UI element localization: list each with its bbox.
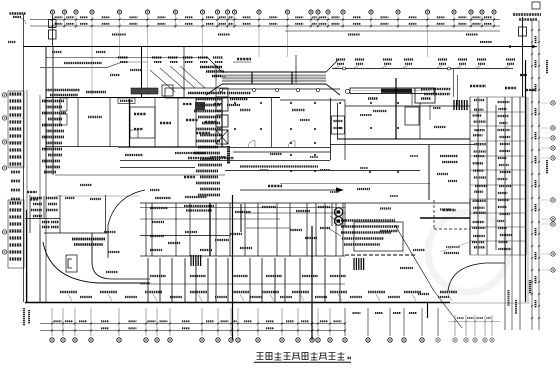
corridor north wall right: [230, 147, 330, 149]
pipe node circles: [343, 67, 346, 70]
mid-left room walls: [78, 98, 222, 147]
south thin line right: [450, 302, 530, 304]
top axis bubble row: [50, 10, 496, 14]
right dimension numbers: [535, 36, 537, 308]
stair arrow: [429, 105, 431, 120]
right stair hatch: [454, 100, 467, 110]
left axis line 40: [39, 95, 41, 302]
left riser legend strip middle: [11, 172, 20, 199]
corridor north wall thin: [46, 146, 118, 148]
diagonal labels: [413, 249, 425, 251]
top-right note text: [513, 13, 541, 16]
trench dark segment: [381, 89, 412, 93]
left valve label: [8, 41, 16, 43]
equipment dark bar: [131, 88, 158, 94]
lower band north wall: [140, 202, 470, 204]
west wall lower extension: [45, 167, 47, 302]
lower-left cluster walls: [25, 195, 107, 233]
row divider wall: [140, 235, 230, 237]
right room label: [443, 209, 456, 212]
bottom-right dim text: [508, 290, 510, 306]
bottom dimension drop lines: [52, 308, 492, 336]
diagonal dim note: [440, 242, 470, 252]
toilet cluster outer walls: [470, 97, 526, 255]
top-left note text: [10, 12, 26, 15]
left riser legend strip lower: [8, 200, 24, 268]
fan room east wall: [428, 145, 430, 200]
lower rooms inner labels: [150, 228, 330, 250]
corridor extra line: [280, 183, 430, 185]
ramp datum arrow: [295, 55, 297, 83]
second row bottom line: [140, 283, 345, 285]
corridor north wall thick: [118, 146, 230, 148]
lower rooms first row walls: [140, 203, 345, 256]
bottom dimension numbers: [54, 313, 491, 328]
drive lane line: [55, 174, 225, 176]
shaft boxes: [216, 97, 228, 111]
building south heavy wall: [25, 302, 450, 304]
water tank room: [130, 107, 155, 138]
trench end circle: [345, 89, 349, 93]
riser pipe thick: [395, 78, 397, 139]
garage nw labels: [227, 92, 251, 95]
ramp big text: [72, 238, 105, 241]
garage sparse labels: [300, 119, 310, 121]
site boundary line top: [23, 46, 537, 48]
corridor small label: [270, 153, 282, 155]
stair hatch lower-left: [191, 255, 201, 266]
kitchen west wall: [337, 103, 339, 139]
bottom right dim line: [448, 321, 500, 323]
kitchen south wall: [337, 138, 470, 140]
upper-right note rows: [421, 88, 451, 91]
right riser pipe: [522, 17, 524, 97]
lower rooms second row walls: [148, 258, 340, 302]
note leader curve: [21, 18, 26, 24]
fan room labels: [434, 126, 446, 128]
corridor riser cluster: [227, 146, 230, 164]
drive lane label 2: [268, 185, 282, 187]
left axis bubbles: [2, 93, 6, 97]
trench outlined bar: [350, 88, 434, 94]
top dimension numbers: [55, 17, 493, 24]
central shaft column cluster: [194, 99, 222, 195]
kitchen north wall: [345, 105, 470, 107]
kitchen corridor line: [330, 144, 475, 146]
pipe shaft boxes: [332, 116, 345, 134]
left heavy axis line: [52, 47, 54, 175]
bottom heavy risers: [232, 195, 234, 340]
pipe branch down: [453, 69, 455, 97]
bottom-right verticals: [504, 230, 506, 330]
upper-left block west wall: [45, 47, 47, 167]
bottom axis bubbles: [50, 338, 494, 342]
right riser valve box: [519, 27, 527, 36]
left dimension line 2: [26, 90, 28, 302]
top dimension line third: [285, 30, 500, 32]
meter box top: [118, 98, 135, 104]
pump room walls: [331, 203, 333, 226]
elevator X box: [216, 130, 228, 144]
dining room label: [380, 207, 391, 209]
main pipe label: [240, 165, 318, 167]
left riser valve box lower: [49, 30, 57, 39]
top dimension line upper: [30, 19, 500, 21]
ramp labels: [104, 231, 116, 233]
kitchen east wall: [419, 103, 421, 139]
lane line 2: [55, 195, 140, 197]
upper band top line: [46, 57, 207, 59]
riser tags left: [27, 191, 37, 193]
upper-left extra tags: [52, 51, 62, 53]
west wall lower: [26, 210, 28, 302]
equipment box band: [165, 88, 228, 98]
rotated dim 5417: [529, 280, 531, 294]
kitchen door box: [405, 107, 419, 125]
bottom-right ramp curve: [448, 263, 505, 291]
top axis drop lines: [53, 14, 495, 95]
corridor sparse marks: [310, 156, 318, 158]
bottom dimension line upper: [40, 323, 345, 325]
garage room labels: [292, 109, 305, 111]
west supply pipe: [40, 67, 107, 69]
riser tag labels: [334, 60, 515, 69]
white equipment box: [162, 85, 173, 96]
ramp U curve: [92, 233, 150, 279]
ramp box: [66, 255, 77, 272]
top extra dim texts: [112, 34, 126, 36]
trench end box: [415, 88, 435, 103]
long leader diagonal 2: [434, 291, 462, 328]
pump circles: [334, 208, 342, 216]
central escalator hatched band: [206, 57, 340, 95]
lower-left fixture cluster: [31, 198, 59, 227]
garage partition wall: [271, 98, 273, 147]
corridor south line: [120, 160, 330, 162]
south annotation labels: [60, 292, 457, 301]
store room marks: [65, 197, 75, 199]
right dimension ticks: [531, 29, 540, 319]
mid band north wall: [46, 97, 280, 99]
drive lane label: [184, 176, 195, 179]
main supply pipe line: [332, 68, 513, 70]
lower band third line: [140, 218, 280, 220]
garage columns: [234, 102, 316, 172]
boundary label: [480, 41, 492, 43]
upper-left text rows bottom: [46, 89, 80, 92]
left riser valve box upper: [49, 20, 57, 28]
right top small box: [532, 2, 540, 9]
right room heavy wall: [420, 217, 470, 219]
ramp edge line with columns: [221, 88, 340, 90]
ramp outer curve: [43, 242, 150, 283]
future extension dashed lines: [433, 200, 435, 229]
right outer notes: [546, 60, 548, 74]
left block south wall: [120, 167, 195, 169]
toilet fixtures: [472, 100, 512, 249]
bottom dimension line lower: [40, 330, 345, 332]
bottom dimension ticks: [51, 320, 493, 331]
top dimension line lower: [30, 25, 500, 27]
long leader diagonal 1: [395, 225, 434, 291]
main pipe line mid: [225, 170, 420, 172]
right axis bubbles: [551, 101, 555, 105]
dining room dashed south wall: [345, 254, 415, 256]
left fixtures dense column: [42, 101, 66, 172]
second row labels: [150, 275, 346, 277]
lane labels: [80, 184, 92, 186]
pipe annotation cluster: [341, 221, 399, 245]
left riser stack: [52, 15, 54, 47]
pipe riser junction: [107, 62, 122, 68]
garage east wall: [330, 98, 332, 160]
annotation leaders: [330, 216, 341, 224]
kitchen room outline: [354, 222, 403, 251]
corridor label row: [188, 157, 234, 159]
drive direction arrow: [240, 189, 338, 191]
left riser legend strip upper: [8, 91, 24, 167]
kitchen labels: [373, 110, 387, 112]
upper-left riser tags: [118, 58, 223, 63]
west pipe label: [64, 62, 102, 64]
right dimension lines: [531, 20, 533, 330]
fire line label: [175, 152, 205, 154]
south west corner label: [23, 308, 25, 326]
ramp slope label: [237, 58, 251, 60]
lower band label row: [150, 197, 330, 222]
drawing title underline: [254, 361, 351, 363]
door arc 1: [248, 141, 255, 148]
upper-left leader diagonals: [150, 66, 205, 92]
title subscript: [348, 357, 352, 360]
top dimension ticks: [51, 18, 495, 27]
dark equipment box: [195, 102, 205, 110]
upper-left pipe verticals: [141, 47, 143, 97]
fire line: [233, 151, 330, 153]
kitchen columns: [339, 102, 399, 173]
left dimension line: [23, 14, 25, 302]
lower band second line: [140, 207, 345, 209]
mid room labels: [88, 116, 102, 118]
drawing title text: [257, 352, 345, 360]
left fixture boxes: [60, 98, 67, 111]
stair hatch lower-mid: [354, 258, 364, 270]
ramp box bracket: [68, 259, 72, 268]
door arc 2: [288, 141, 295, 148]
faint watermark ring: [428, 212, 508, 292]
dense tag cluster right: [200, 66, 222, 69]
